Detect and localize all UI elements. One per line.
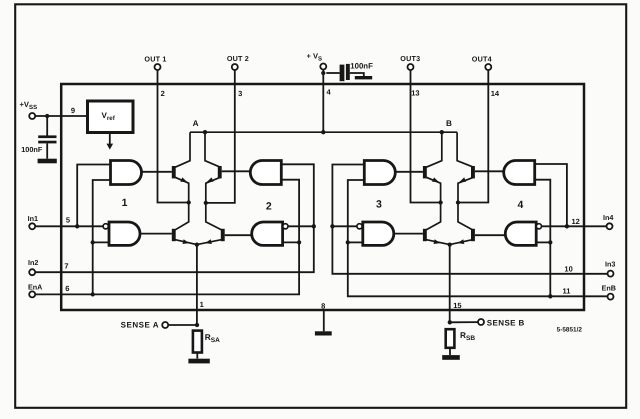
svg-text:6: 6 — [65, 284, 69, 293]
junction In3 bubble tap — [330, 224, 334, 228]
terminal In2 — [29, 269, 35, 275]
wire OUT2 column — [206, 70, 235, 203]
wire OUT3 column — [411, 70, 441, 203]
wire to gate4 lower input — [536, 241, 550, 243]
svg-text:4: 4 — [517, 199, 523, 211]
capacitor 100nF (top) — [340, 65, 345, 82]
AND gate 4 upper — [504, 161, 535, 185]
capacitor 100nF (left) — [38, 135, 56, 138]
wire to gate1 lower input — [93, 241, 109, 243]
wire to gate2 lower input — [283, 241, 300, 243]
svg-text:100nF: 100nF — [21, 145, 43, 154]
junction In4 tap — [565, 224, 569, 228]
terminal OUT1 — [155, 64, 161, 70]
wire Vss cap branch — [46, 116, 48, 136]
ground (pin 8) — [315, 331, 332, 335]
svg-text:A: A — [193, 119, 199, 128]
wire +Vss to Vref — [35, 115, 87, 117]
svg-text:1: 1 — [200, 300, 204, 309]
wire sense A column — [196, 245, 198, 325]
wire In3 to gate3 bubble — [332, 225, 357, 227]
wire sense B stub — [450, 321, 478, 323]
svg-text:3: 3 — [376, 199, 382, 211]
wire OUT4 column — [458, 70, 488, 203]
junction +Vs cap tap — [321, 71, 325, 75]
wire pin8 ground stub — [323, 311, 325, 331]
transistor Q3 — [172, 229, 176, 241]
terminal In3 — [608, 271, 614, 277]
transistor Q7 — [423, 229, 427, 241]
svg-text:1: 1 — [122, 197, 128, 209]
junction OUT2 node — [204, 201, 208, 205]
wire RSB to ground — [449, 348, 451, 355]
transistor Q2 — [218, 166, 222, 178]
svg-text:100nF: 100nF — [350, 61, 373, 70]
junction node B — [440, 130, 444, 134]
svg-text:8: 8 — [321, 301, 325, 310]
junction gate3 lower tap — [346, 240, 350, 244]
svg-text:OUT 1: OUT 1 — [144, 54, 166, 63]
terminal +Vss — [29, 113, 35, 119]
junction OUT3 node — [438, 200, 442, 204]
wire gate2 output — [222, 170, 251, 172]
transistor Q1 — [172, 166, 176, 178]
junction sense B node — [448, 242, 452, 246]
svg-text:10: 10 — [564, 264, 572, 273]
terminal SENSE B — [478, 319, 484, 325]
junction node A — [203, 130, 207, 134]
svg-text:2: 2 — [161, 89, 165, 98]
AND gate 4 lower — [505, 222, 536, 245]
junction sense B — [448, 320, 452, 324]
wire gate4 lower output — [475, 234, 505, 236]
junction gate2 lower tap — [297, 240, 301, 244]
svg-text:5-5851/2: 5-5851/2 — [557, 326, 583, 333]
resistor RSB — [446, 329, 455, 348]
svg-text:EnA: EnA — [28, 283, 42, 292]
svg-text:13: 13 — [411, 88, 419, 97]
ground (top cap) — [355, 76, 372, 79]
transistor Q6 — [471, 166, 475, 178]
svg-text:9: 9 — [71, 106, 75, 115]
junction gate1 lower tap — [91, 240, 95, 244]
terminal +Vs — [320, 64, 326, 70]
wire In3 line — [332, 165, 607, 274]
transistor Q4 — [221, 229, 225, 241]
AND gate 2 upper — [250, 161, 281, 185]
svg-text:2: 2 — [266, 201, 272, 213]
transistor Q5 — [423, 166, 427, 178]
svg-text:3: 3 — [238, 89, 242, 98]
junction rail +Vs — [321, 130, 325, 134]
terminal In4 — [607, 223, 613, 229]
terminal OUT3 — [408, 64, 414, 70]
wire gate3 lower output — [394, 233, 423, 235]
terminal EnA — [29, 291, 35, 297]
wire In1 line — [35, 225, 103, 227]
ground (RSA) — [188, 359, 209, 364]
wire +Vs column — [322, 70, 324, 133]
wire cap to ground (left) — [46, 143, 48, 158]
Vref box U1 — [88, 101, 134, 133]
AND gate 3 upper — [364, 161, 395, 185]
junction sense A — [195, 323, 199, 327]
AND gate 1 lower — [109, 222, 140, 245]
wire In1 to gate1 top — [77, 165, 110, 227]
terminal EnB — [608, 294, 614, 300]
IC boundary box — [61, 84, 584, 310]
transistor Q8 — [471, 229, 475, 241]
svg-text:OUT3: OUT3 — [400, 54, 420, 63]
svg-text:11: 11 — [563, 286, 571, 295]
wire EnA to gate1 inputs — [93, 180, 111, 294]
AND gate 3 lower — [363, 222, 394, 245]
wire sense B column — [449, 245, 451, 323]
wire EnB line — [348, 180, 608, 296]
junction EnB gate4 tap — [548, 294, 552, 298]
svg-text:In3: In3 — [605, 260, 615, 269]
wire cap to ground — [350, 73, 364, 76]
svg-text:In1: In1 — [28, 214, 38, 223]
wire EnB to gate4 inputs — [535, 180, 551, 297]
junction sense A node — [195, 242, 199, 246]
junction Vss cap tap — [45, 114, 49, 118]
svg-text:5: 5 — [66, 216, 70, 225]
terminal OUT2 — [232, 64, 238, 70]
Vref output arrow — [109, 133, 111, 145]
wire gate2 lower output — [225, 234, 252, 236]
svg-text:SENSE B: SENSE B — [487, 318, 525, 327]
ground (left cap) — [38, 159, 57, 164]
wire In4 to gate4 top — [535, 164, 567, 226]
svg-text:SENSE A: SENSE A — [121, 321, 159, 330]
svg-text:EnB: EnB — [602, 283, 616, 292]
wire gate1 lower output — [140, 233, 171, 235]
wire gate3 output — [395, 171, 423, 173]
wire EnA line — [35, 180, 299, 295]
svg-text:OUT 2: OUT 2 — [227, 54, 249, 63]
svg-text:In2: In2 — [28, 258, 38, 267]
svg-text:In4: In4 — [603, 213, 613, 222]
svg-text:7: 7 — [64, 262, 68, 271]
svg-text:B: B — [446, 119, 452, 128]
svg-text:15: 15 — [453, 301, 461, 310]
wire to gate3 lower input — [348, 241, 363, 243]
resistor RSA — [193, 331, 202, 353]
terminal In1 — [29, 223, 35, 229]
junction gate4 lower tap — [548, 240, 552, 244]
wire gate1 output — [142, 171, 172, 173]
wire +Vs rail — [190, 131, 457, 133]
wire In2 to gate2 bubble — [288, 225, 314, 227]
wire OUT1 column — [158, 70, 189, 203]
wire RSA to ground — [196, 353, 198, 359]
wire gate4 output — [475, 170, 504, 172]
junction EnA gate1 tap — [91, 292, 95, 296]
junction OUT4 node — [456, 200, 460, 204]
terminal SENSE A — [162, 322, 168, 328]
AND gate 2 lower — [252, 222, 283, 245]
AND gate 1 upper — [111, 161, 142, 185]
svg-text:12: 12 — [572, 217, 580, 226]
ground (RSB) — [442, 355, 460, 360]
wire In2 line — [35, 164, 314, 272]
wire sense A stub — [168, 324, 197, 326]
terminal OUT4 — [485, 64, 491, 70]
svg-text:OUT4: OUT4 — [472, 54, 492, 63]
junction OUT1 node — [187, 200, 191, 204]
svg-text:14: 14 — [491, 89, 500, 98]
junction In2 bubble tap — [312, 224, 316, 228]
junction In1 tap — [75, 224, 79, 228]
wire In4 line — [541, 225, 606, 227]
